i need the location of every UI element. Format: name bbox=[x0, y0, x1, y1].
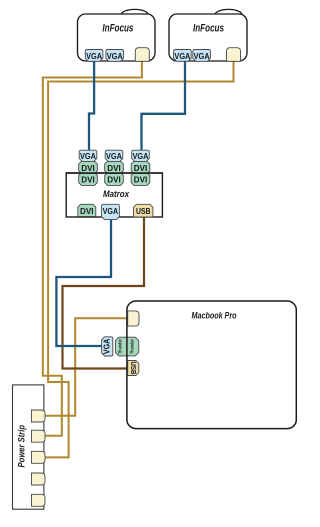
Matrox box bbox=[66, 173, 162, 217]
svg-text:VGA: VGA bbox=[103, 206, 119, 216]
Power strip outlet 4 bbox=[32, 473, 46, 485]
Matrox input 1 DVI port bbox=[79, 173, 98, 186]
svg-text:DVI: DVI bbox=[107, 163, 121, 173]
svg-text:Matrox: Matrox bbox=[103, 189, 130, 199]
wire: right projector VGA to Matrox port 3 (blue) bbox=[142, 55, 186, 152]
svg-text:DVI: DVI bbox=[81, 163, 95, 173]
svg-text:VGA: VGA bbox=[103, 338, 112, 354]
projector 2 power port bbox=[227, 48, 241, 62]
svg-text:Macbook Pro: Macbook Pro bbox=[192, 310, 238, 320]
svg-text:USB: USB bbox=[136, 206, 151, 216]
projector 1 VGA port 1 bbox=[85, 50, 103, 62]
svg-text:VGA: VGA bbox=[174, 51, 190, 61]
Macbook Pro box bbox=[127, 301, 296, 429]
svg-text:DVI: DVI bbox=[81, 175, 95, 185]
projector 2 lens bump bbox=[215, 9, 242, 19]
Macbook USB port bbox=[128, 361, 139, 376]
Power strip outlet 1 bbox=[32, 410, 46, 422]
svg-text:DVI: DVI bbox=[134, 163, 148, 173]
projector 1 InFocus body bbox=[78, 14, 156, 61]
svg-text:Thunder: Thunder bbox=[130, 339, 135, 354]
Matrox input 3 DVI plug bbox=[131, 161, 150, 173]
Matrox DVI out port bbox=[78, 204, 96, 216]
svg-text:DVI: DVI bbox=[134, 175, 148, 185]
Matrox input 2 VGA adapter bbox=[105, 150, 123, 161]
svg-text:VGA: VGA bbox=[86, 51, 102, 61]
wire: Matrox VGA out to Macbook VGA adapter (blue) bbox=[56, 212, 111, 346]
Matrox input 1 DVI plug bbox=[79, 161, 98, 173]
Power strip outlet 2 bbox=[32, 430, 46, 442]
Matrox box top edge overlay bbox=[66, 172, 162, 174]
wire: left projector power to outlet 2 (gold) bbox=[40, 55, 142, 436]
svg-text:USB: USB bbox=[129, 362, 138, 375]
Matrox input 3 VGA adapter bbox=[132, 150, 150, 161]
Matrox input 2 DVI port bbox=[105, 173, 124, 186]
projector 1 VGA port 2 bbox=[106, 50, 124, 62]
wire: right projector power to outlet 3 (gold) bbox=[40, 55, 234, 457]
svg-text:DVI: DVI bbox=[107, 175, 121, 185]
Macbook MagSafe power port bbox=[128, 311, 139, 326]
Macbook Thunderbolt port bbox=[115, 337, 138, 356]
Matrox input 3 DVI port bbox=[131, 173, 150, 186]
wire: left projector VGA to Matrox port 1 (blue) bbox=[89, 55, 94, 152]
Macbook box edge overlay through thunderbolt bbox=[126, 337, 128, 357]
svg-text:DVI: DVI bbox=[80, 206, 94, 216]
Power strip outlet 3 bbox=[32, 451, 46, 463]
projector 1 power port bbox=[135, 48, 149, 62]
wire: MagSafe power to outlet 1 (gold) bbox=[40, 318, 128, 416]
svg-text:Thunder: Thunder bbox=[118, 339, 123, 354]
svg-text:VGA: VGA bbox=[194, 51, 210, 61]
svg-text:Power Strip: Power Strip bbox=[17, 425, 27, 468]
projector 2 InFocus body bbox=[169, 14, 247, 61]
projector 2 VGA port 2 bbox=[193, 50, 211, 62]
Matrox VGA out port bbox=[101, 204, 119, 219]
projector 1 lens bump bbox=[121, 9, 148, 19]
projector 2 VGA port 1 bbox=[174, 50, 192, 62]
Power strip outlet 5 bbox=[32, 494, 46, 506]
svg-text:VGA: VGA bbox=[107, 51, 123, 61]
svg-text:VGA: VGA bbox=[106, 151, 122, 161]
svg-text:InFocus: InFocus bbox=[193, 23, 224, 35]
Matrox input 2 DVI plug bbox=[105, 161, 124, 173]
Power Strip box bbox=[13, 385, 44, 509]
Matrox input 1 VGA adapter bbox=[79, 150, 97, 161]
wire: Matrox USB to Macbook USB (brown) bbox=[63, 212, 145, 369]
svg-text:InFocus: InFocus bbox=[102, 23, 133, 35]
svg-text:VGA: VGA bbox=[80, 151, 96, 161]
svg-text:VGA: VGA bbox=[133, 151, 149, 161]
Macbook VGA adapter on thunderbolt bbox=[102, 337, 113, 356]
Matrox USB out port bbox=[134, 204, 153, 217]
